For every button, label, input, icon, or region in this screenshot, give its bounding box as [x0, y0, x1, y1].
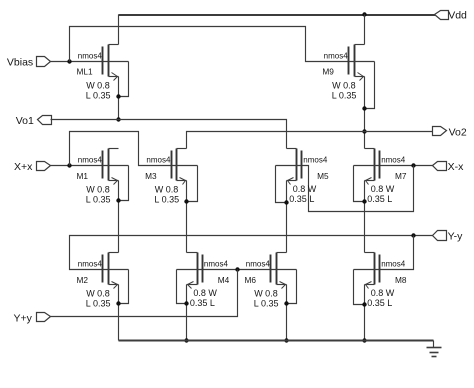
- svg-text:X-x: X-x: [448, 161, 465, 173]
- wire: M9 source down through Vo2 to M7 drain: [364, 77, 366, 149]
- node: X-x junction: [411, 163, 415, 167]
- wire: Y+y to M4/M6 gate tie: [51, 270, 238, 317]
- transistor ML1 (nmos4): [77, 45, 129, 101]
- svg-text:0.8 W: 0.8 W: [371, 184, 395, 194]
- svg-text:W 0.8: W 0.8: [332, 81, 356, 91]
- node: M4 source junction on ground rail: [184, 338, 188, 342]
- wire: M3 source down to M4 drain: [186, 181, 188, 253]
- port X+x: [37, 162, 51, 171]
- wire: ML1 drain up to Vdd rail: [118, 15, 120, 45]
- svg-text:M8: M8: [395, 275, 407, 285]
- node: Y+y junction at M4/M6 gates: [235, 267, 239, 271]
- svg-text:W 0.8: W 0.8: [86, 185, 110, 195]
- svg-text:nmos4: nmos4: [246, 260, 271, 269]
- port Vo2: [433, 127, 447, 136]
- wire: M7 source down to M8 drain: [364, 181, 366, 253]
- wire: M4-M6 gate tie line: [203, 269, 271, 271]
- transistor M3 (nmos4): [145, 149, 197, 205]
- wire: M8 source to ground rail: [364, 285, 366, 341]
- svg-text:Vo2: Vo2: [449, 126, 467, 138]
- ground symbol: [427, 341, 442, 357]
- Y-y rail: [70, 236, 433, 270]
- svg-text:0.35 L: 0.35 L: [367, 194, 392, 204]
- svg-text:0.8 W: 0.8 W: [293, 184, 317, 194]
- wire: M5 source down to M6 drain: [286, 181, 288, 253]
- port Y-y: [433, 231, 447, 241]
- svg-text:Vbias: Vbias: [7, 56, 33, 68]
- svg-text:nmos4: nmos4: [78, 156, 103, 165]
- junction on Vdd rail at M9 drain: [362, 12, 366, 16]
- svg-text:M1: M1: [77, 171, 89, 181]
- transistor M2 (nmos4): [77, 253, 129, 309]
- svg-text:L 0.35: L 0.35: [254, 299, 279, 309]
- svg-text:Vdd: Vdd: [448, 10, 467, 22]
- svg-text:L 0.35: L 0.35: [86, 299, 111, 309]
- transistor M9 (nmos4): [322, 45, 374, 111]
- svg-text:nmos4: nmos4: [78, 260, 103, 269]
- port Vdd: [435, 11, 449, 20]
- svg-text:nmos4: nmos4: [381, 260, 406, 269]
- wire: M1 source down to M2 drain: [118, 181, 120, 253]
- transistor M7 (nmos4): [354, 149, 407, 205]
- transistor M6 (nmos4): [245, 253, 297, 309]
- wire: M2 source to ground rail: [118, 285, 120, 341]
- svg-text:0.8 W: 0.8 W: [371, 288, 395, 298]
- node: M6 source junction on ground rail: [284, 338, 288, 342]
- svg-text:M2: M2: [77, 275, 89, 285]
- wire: Vo2 line from M3 drain to Vo2 port: [187, 132, 433, 149]
- wire: Vbias to ML1 gate: [51, 61, 103, 63]
- svg-text:W 0.8: W 0.8: [86, 81, 110, 91]
- node: Vbias junction: [67, 59, 71, 63]
- transistor M1 (nmos4): [77, 149, 129, 205]
- transistor M5 (nmos4): [276, 149, 330, 205]
- svg-text:Y-y: Y-y: [448, 231, 464, 243]
- wire: M6 source to ground rail: [286, 285, 288, 341]
- svg-text:M9: M9: [322, 67, 334, 77]
- svg-text:0.8 W: 0.8 W: [193, 288, 217, 298]
- wire: X-x under-route to M5 gate: [302, 166, 414, 212]
- wire: X+x to M1 gate: [51, 165, 103, 167]
- node: Y-y junction: [411, 233, 415, 237]
- svg-text:L 0.35: L 0.35: [332, 91, 357, 101]
- svg-text:L 0.35: L 0.35: [86, 195, 111, 205]
- svg-text:M7: M7: [395, 171, 407, 181]
- svg-text:L 0.35: L 0.35: [86, 91, 111, 101]
- svg-text:0.35 L: 0.35 L: [190, 298, 215, 308]
- svg-text:nmos4: nmos4: [78, 51, 103, 60]
- wire: X-x to M7 gate: [380, 165, 433, 167]
- svg-text:M4: M4: [218, 275, 230, 285]
- transistor M4 (nmos4): [177, 253, 230, 309]
- wire: X+x over-route to M3 gate: [70, 132, 172, 166]
- node: Vo2 junction at M9/M7 column: [362, 129, 366, 133]
- Vdd power rail: [119, 14, 436, 16]
- svg-text:nmos4: nmos4: [324, 51, 349, 60]
- svg-text:Y+y: Y+y: [14, 313, 33, 325]
- svg-text:M3: M3: [145, 171, 157, 181]
- svg-text:0.35 L: 0.35 L: [367, 298, 392, 308]
- transistor M8 (nmos4): [354, 253, 407, 309]
- wire: Y-y down to M8 gate: [380, 236, 414, 270]
- node: X+x junction: [67, 163, 71, 167]
- port X-x: [433, 162, 447, 171]
- svg-text:W 0.8: W 0.8: [86, 289, 110, 299]
- svg-text:Vo1: Vo1: [16, 115, 34, 127]
- port Vbias: [37, 57, 51, 67]
- ground rail: [119, 340, 434, 342]
- wire: M4 source to ground rail: [186, 285, 188, 341]
- svg-text:nmos4: nmos4: [381, 156, 406, 165]
- svg-text:nmos4: nmos4: [204, 260, 229, 269]
- node: M8 source junction on ground rail: [362, 338, 366, 342]
- svg-text:ML1: ML1: [77, 67, 94, 77]
- wire: Vbias over-route to M9 gate: [70, 27, 349, 62]
- svg-text:W 0.8: W 0.8: [155, 185, 179, 195]
- node: ML1 source/bulk join passthrough dot at Vo1: [116, 117, 120, 121]
- port Vo1: [38, 116, 52, 125]
- wire: M9 drain up to Vdd rail: [364, 15, 366, 45]
- svg-text:X+x: X+x: [14, 161, 33, 173]
- port Y+y: [37, 313, 51, 322]
- svg-text:nmos4: nmos4: [303, 156, 328, 165]
- svg-text:W 0.8: W 0.8: [254, 289, 278, 299]
- wire: ML1 source down to Vo1 node: [118, 77, 120, 120]
- svg-text:M5: M5: [317, 171, 329, 181]
- svg-text:0.35 L: 0.35 L: [289, 194, 314, 204]
- svg-text:M6: M6: [245, 275, 257, 285]
- wire: Vo1 line to M5 drain: [51, 120, 287, 149]
- svg-text:nmos4: nmos4: [146, 156, 171, 165]
- svg-text:L 0.35: L 0.35: [154, 195, 179, 205]
